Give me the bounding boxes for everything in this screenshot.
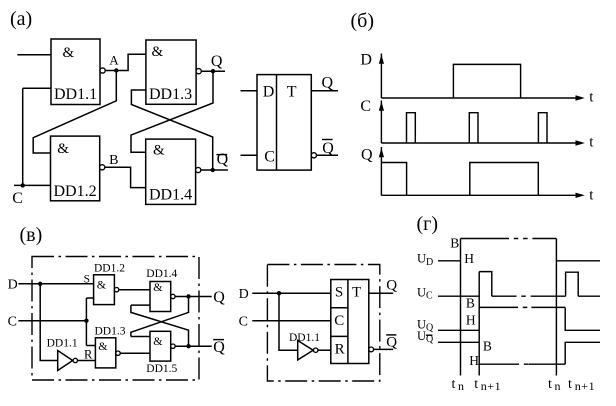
- svg-text:t: t: [548, 377, 552, 392]
- svg-text:B: B: [450, 236, 459, 251]
- svg-text:t: t: [452, 377, 456, 392]
- svg-text:S: S: [335, 285, 343, 301]
- svg-text:t: t: [568, 377, 572, 392]
- svg-text:DD1.2: DD1.2: [54, 183, 97, 200]
- svg-text:n+1: n+1: [481, 379, 502, 393]
- svg-text:DD1.3: DD1.3: [95, 326, 126, 338]
- svg-text:DD1.1: DD1.1: [289, 332, 320, 344]
- svg-text:DD1.1: DD1.1: [54, 86, 97, 103]
- svg-text:T: T: [287, 83, 297, 100]
- svg-text:&: &: [97, 277, 107, 291]
- svg-text:C: C: [12, 190, 23, 207]
- svg-text:&: &: [152, 44, 164, 60]
- svg-text:Q: Q: [213, 339, 225, 356]
- svg-text:(б): (б): [351, 10, 375, 32]
- svg-text:B: B: [109, 153, 118, 168]
- svg-text:R: R: [335, 342, 345, 358]
- svg-text:Q: Q: [386, 335, 397, 351]
- svg-text:&: &: [57, 141, 69, 157]
- svg-text:D: D: [8, 277, 18, 292]
- svg-text:H: H: [464, 251, 474, 266]
- svg-text:&: &: [153, 334, 163, 348]
- svg-text:C: C: [8, 314, 17, 329]
- svg-text:DD1.3: DD1.3: [149, 86, 192, 103]
- svg-text:C: C: [334, 313, 344, 329]
- svg-text:B: B: [483, 339, 492, 354]
- svg-text:C: C: [239, 314, 248, 329]
- svg-text:&: &: [63, 45, 75, 61]
- svg-text:Q: Q: [217, 151, 229, 168]
- svg-text:A: A: [109, 53, 119, 68]
- svg-text:t: t: [474, 377, 478, 392]
- svg-text:D: D: [360, 52, 372, 69]
- svg-text:H: H: [469, 353, 479, 368]
- svg-text:B: B: [466, 296, 475, 311]
- svg-text:Q: Q: [322, 75, 334, 92]
- svg-text:D: D: [239, 287, 249, 302]
- svg-text:n: n: [555, 379, 561, 393]
- svg-text:Q: Q: [361, 146, 373, 163]
- svg-text:DD1.1: DD1.1: [47, 338, 78, 350]
- svg-text:DD1.4: DD1.4: [149, 187, 192, 204]
- svg-text:&: &: [153, 142, 165, 158]
- svg-text:n+1: n+1: [575, 379, 596, 393]
- svg-text:Q: Q: [322, 140, 334, 157]
- svg-text:&: &: [98, 339, 108, 353]
- svg-text:R: R: [84, 348, 93, 362]
- svg-text:Q: Q: [211, 53, 223, 70]
- svg-text:DD1.2: DD1.2: [94, 263, 125, 275]
- svg-text:n: n: [458, 379, 464, 393]
- svg-text:DD1.4: DD1.4: [146, 268, 177, 280]
- svg-text:&: &: [153, 280, 163, 294]
- svg-text:S: S: [84, 274, 90, 286]
- svg-text:D: D: [263, 83, 275, 100]
- svg-text:DD1.5: DD1.5: [146, 363, 177, 375]
- svg-text:Q: Q: [386, 277, 397, 293]
- svg-text:T: T: [352, 285, 361, 301]
- svg-text:C: C: [264, 149, 275, 166]
- svg-text:H: H: [466, 313, 476, 328]
- svg-text:(в): (в): [20, 224, 43, 246]
- svg-text:(а): (а): [10, 8, 32, 30]
- svg-text:C: C: [360, 98, 371, 115]
- svg-text:Q: Q: [213, 289, 225, 306]
- svg-text:(г): (г): [417, 213, 439, 235]
